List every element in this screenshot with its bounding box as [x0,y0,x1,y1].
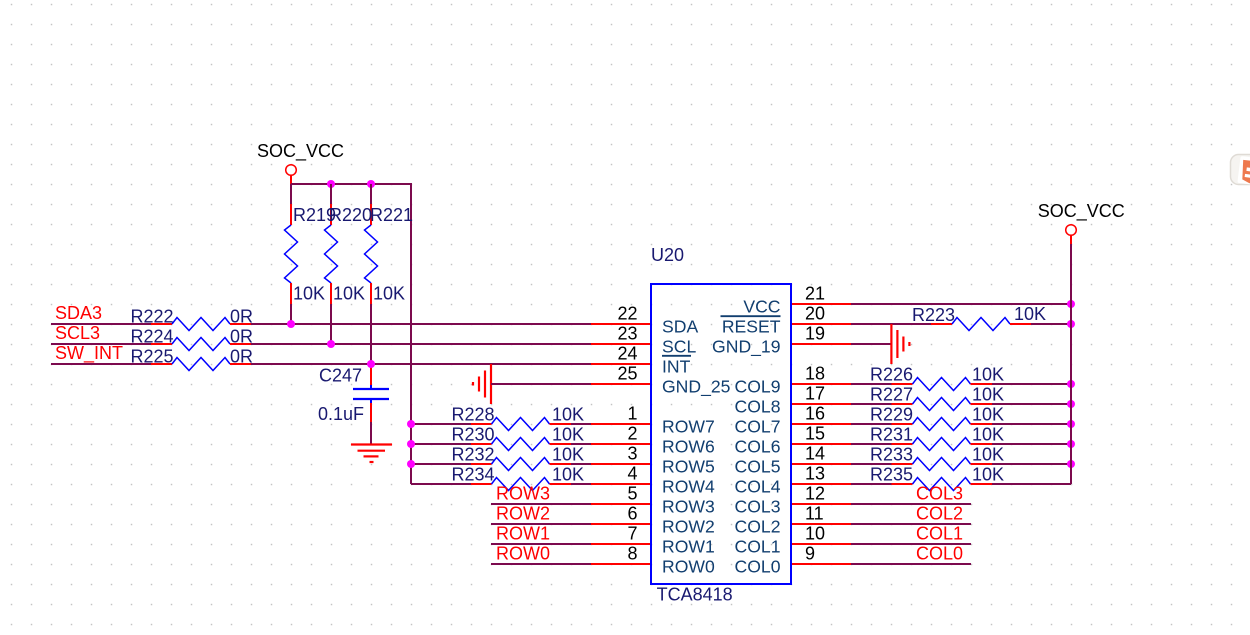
wire top rail [291,183,411,185]
value 10K of R228 [552,405,584,425]
pin number 22 [617,304,637,324]
svg-text:C247: C247 [319,366,362,386]
resistor R232 10K [471,458,571,471]
value 0R of R224 [230,327,253,347]
pin stub right y564 [791,563,851,565]
pin stub right y324 [791,323,851,325]
pin name ROW4 [662,476,715,496]
svg-text:R220: R220 [329,205,372,225]
svg-text:0.1uF: 0.1uF [318,404,364,424]
resistor R223 10K [931,318,1031,331]
svg-text:RESET: RESET [722,316,781,336]
svg-text:COL1: COL1 [916,523,963,543]
pin stub right y384 [791,383,851,385]
wire R234 to chip [571,483,591,485]
pin stub right y344 [791,343,851,345]
svg-text:10K: 10K [293,283,325,303]
pin name INT [662,356,691,376]
net label ROW1 [496,523,550,543]
value 0R of R222 [230,307,253,327]
pin stub right y404 [791,403,851,405]
pin stub left y564 [591,563,651,565]
svg-text:R222: R222 [131,307,174,327]
svg-text:ROW2: ROW2 [496,503,550,523]
pin number 4 [627,464,637,484]
pin number 9 [805,544,815,564]
svg-text:5: 5 [627,484,637,504]
net label ROW3 [496,483,550,503]
svg-text:12: 12 [805,484,825,504]
net label SDA3 [55,303,102,323]
svg-text:COL0: COL0 [735,556,781,576]
svg-text:14: 14 [805,444,825,464]
wire R235 to rail [992,483,1071,485]
junction rail y384 [1067,380,1075,388]
overline RESET [721,315,781,317]
wire pin to R229 [851,423,892,425]
svg-text:ROW3: ROW3 [662,496,715,516]
wire R227 to rail [992,403,1071,405]
junction SCL3 pullup [327,340,335,348]
ground on pin 19 [891,324,909,364]
svg-text:R223: R223 [912,305,955,325]
svg-text:R234: R234 [452,465,495,485]
label R219 [293,205,336,225]
pin number 23 [617,324,637,344]
pin stub right y524 [791,523,851,525]
junction rail row6 [407,440,415,448]
pin stub left y344 [591,343,651,345]
junction rail pin20 [1067,320,1075,328]
svg-text:COL3: COL3 [735,496,781,516]
wire COL0 [851,563,971,565]
svg-text:10K: 10K [1014,304,1046,324]
wire pin to R231 [851,443,892,445]
pin name SDA [662,316,698,336]
wire VCC rail vertical [1070,244,1072,484]
svg-text:SOC_VCC: SOC_VCC [257,141,344,162]
junction rail row7 [407,420,415,428]
label R222 [131,307,174,327]
svg-text:TCA8418: TCA8418 [657,585,733,605]
pin stub right y464 [791,463,851,465]
wire pin to R226 [851,383,892,385]
value 10K of R235 [972,465,1004,485]
svg-text:4: 4 [627,464,637,484]
svg-text:GND_25: GND_25 [662,376,731,397]
resistor R219 10K vertical [285,184,298,324]
pin name RESET [722,316,781,336]
resistor R220 10K vertical [325,184,338,344]
svg-text:COL7: COL7 [735,416,781,436]
label R232 [452,445,495,465]
pin stub right y444 [791,443,851,445]
pin name ROW3 [662,496,715,516]
svg-text:ROW7: ROW7 [662,416,715,436]
junction rail pin21 [1067,300,1075,308]
svg-text:COL2: COL2 [916,503,963,523]
junction rail y424 [1067,420,1075,428]
wire COL3 [851,503,971,505]
svg-text:13: 13 [805,464,825,484]
wire COL2 [851,523,971,525]
wire vertical right of R221 [410,183,412,484]
browser overlay button [1231,155,1250,186]
pin stub right y304 [791,303,851,305]
resistor R234 10K [471,478,571,491]
svg-text:R231: R231 [870,425,913,445]
value 0.1uF [318,404,364,424]
label R224 [131,327,174,347]
ground below C247 [351,445,392,463]
pin number 20 [805,304,825,324]
svg-text:20: 20 [805,304,825,324]
svg-text:COL3: COL3 [916,483,963,503]
pin stub right y504 [791,503,851,505]
svg-text:10K: 10K [972,405,1004,425]
resistor R233 10K [892,458,993,471]
wire rail to R234 [411,483,471,485]
capacitor C247 0.1uF [353,364,389,422]
svg-text:10K: 10K [552,465,584,485]
pin number 7 [627,524,637,544]
junction SW_INT pullup [367,360,375,368]
wire SCL3 left segment [51,343,151,345]
pin stub right y484 [791,483,851,485]
pin name COL4 [735,476,781,496]
svg-text:2: 2 [627,424,637,444]
svg-text:10K: 10K [972,465,1004,485]
svg-text:10K: 10K [373,283,405,303]
value 0R of R225 [230,347,253,367]
svg-text:ROW0: ROW0 [496,543,550,563]
pin number 8 [627,544,637,564]
pin name GND_19 [712,336,780,357]
pin number 18 [805,364,825,384]
value 10K of R231 [972,425,1004,445]
svg-text:3: 3 [627,444,637,464]
wire C247 to ground [370,422,372,444]
label R231 [870,425,913,445]
pin stub right y424 [791,423,851,425]
pin name ROW0 [662,556,715,576]
pin name COL1 [735,536,781,556]
pin number 14 [805,444,825,464]
svg-text:8: 8 [627,544,637,564]
wire ROW2 [491,523,591,525]
svg-text:ROW1: ROW1 [662,536,715,556]
svg-text:18: 18 [805,364,825,384]
svg-text:COL6: COL6 [735,436,781,456]
wire ROW3 [491,503,591,505]
svg-text:COL2: COL2 [735,516,781,536]
label R223 [912,305,955,325]
wire SDA3 left segment [51,323,151,325]
junction on top rail at R220 [327,180,335,188]
svg-text:10K: 10K [552,445,584,465]
svg-text:SCL: SCL [662,336,696,356]
resistor R225 0R [151,358,251,371]
svg-text:0R: 0R [230,307,253,327]
svg-text:R230: R230 [452,425,495,445]
label R234 [452,465,495,485]
svg-text:10: 10 [805,524,825,544]
pin name COL2 [735,516,781,536]
svg-text:R229: R229 [870,405,913,425]
value 10K of R221 [373,283,405,303]
svg-text:10K: 10K [552,405,584,425]
pin name COL3 [735,496,781,516]
net label ROW2 [496,503,550,523]
svg-text:R232: R232 [452,445,495,465]
pin name COL9 [735,376,781,396]
wire rail to R230 [411,443,471,445]
pin name COL5 [735,456,781,476]
net label COL1 [916,523,963,543]
junction rail y444 [1067,440,1075,448]
wire ROW0 [491,563,591,565]
svg-text:R221: R221 [370,205,413,225]
net label ROW0 [496,543,550,563]
pin name COL6 [735,436,781,456]
wire SW_INT left segment [51,363,151,365]
svg-text:10K: 10K [972,425,1004,445]
label R229 [870,405,913,425]
svg-text:COL5: COL5 [735,456,781,476]
junction rail y404 [1067,400,1075,408]
wire SW_INT to chip [251,363,591,365]
svg-text:ROW5: ROW5 [662,456,715,476]
net label SW_INT [55,343,123,364]
pin name COL7 [735,416,781,436]
value 10K of R230 [552,425,584,445]
wire SDA3 to chip [251,323,591,325]
resistor R229 10K [892,418,993,431]
svg-text:22: 22 [617,304,637,324]
svg-text:COL1: COL1 [735,536,781,556]
label R220 [329,205,372,225]
pin number 17 [805,384,825,404]
svg-text:21: 21 [805,284,825,304]
ground on INT pin 25 [473,364,491,404]
svg-text:16: 16 [805,404,825,424]
pin number 5 [627,484,637,504]
resistor R235 10K [892,478,993,491]
net label SCL3 [55,323,100,343]
value 10K of R234 [552,465,584,485]
svg-text:23: 23 [617,324,637,344]
value 10K of R229 [972,405,1004,425]
svg-text:7: 7 [627,524,637,544]
svg-text:COL8: COL8 [735,396,781,416]
pin number 11 [805,504,824,524]
value 10K of R233 [972,445,1004,465]
svg-text:ROW2: ROW2 [662,516,715,536]
pin name GND_25 [662,376,731,397]
junction on top rail at R221 [367,180,375,188]
pin name ROW7 [662,416,715,436]
value 10K of R220 [333,283,365,303]
svg-text:ROW6: ROW6 [662,436,715,456]
label R228 [452,405,495,425]
label R227 [870,385,913,405]
resistor R228 10K [471,418,571,431]
pin number 19 [805,324,825,344]
svg-text:R235: R235 [870,465,913,485]
svg-text:SDA3: SDA3 [55,303,102,323]
value 10K of R232 [552,445,584,465]
net label COL0 [916,543,963,563]
value 10K of R227 [972,385,1004,405]
resistor R230 10K [471,438,571,451]
pin stub left y544 [591,543,651,545]
svg-text:24: 24 [617,344,637,364]
wire R228 to chip [571,423,591,425]
svg-text:0R: 0R [230,327,253,347]
overline INT [662,355,691,357]
pin stub left y444 [591,443,651,445]
pin stub left y364 [591,363,651,365]
wire R231 to rail [992,443,1071,445]
wire R233 to rail [992,463,1071,465]
resistor R231 10K [892,438,993,451]
label R221 [370,205,413,225]
svg-text:SDA: SDA [662,316,698,336]
svg-text:1: 1 [627,404,637,424]
op-amp U20 TCA8418 body [651,284,791,584]
pin stub left y504 [591,503,651,505]
resistor R226 10K [892,378,993,391]
label R233 [870,445,913,465]
net label COL2 [916,503,963,523]
svg-text:R233: R233 [870,445,913,465]
svg-text:GND_19: GND_19 [712,336,780,357]
pin number 1 [627,404,637,424]
pin number 10 [805,524,825,544]
pin number 15 [805,424,825,444]
wire SCL3 to chip [251,343,591,345]
wire pin to R233 [851,463,892,465]
pin number 21 [805,284,825,304]
pin number 3 [627,444,637,464]
resistor R227 10K [892,398,993,411]
svg-text:10K: 10K [972,445,1004,465]
pin name VCC [743,296,780,316]
wire rail to R232 [411,463,471,465]
net label COL3 [916,483,963,503]
svg-text:SCL3: SCL3 [55,323,100,343]
svg-text:R226: R226 [870,365,913,385]
pin stub left y424 [591,423,651,425]
pin number 16 [805,404,825,424]
wire R223 to rail [1031,323,1071,325]
svg-text:SOC_VCC: SOC_VCC [1038,201,1125,222]
resistor R222 0R [151,318,251,331]
svg-text:25: 25 [617,364,637,384]
wire GND pin19 [851,343,891,345]
pin name COL8 [735,396,781,416]
wire rail to R228 [411,423,471,425]
pin stub left y484 [591,483,651,485]
svg-text:10K: 10K [333,283,365,303]
pin stub left y384 [591,383,651,385]
value 10K of R219 [293,283,325,303]
junction rail y464 [1067,460,1075,468]
svg-text:R227: R227 [870,385,913,405]
svg-text:COL9: COL9 [735,376,781,396]
pin number 2 [627,424,637,444]
wire pin to R227 [851,403,892,405]
wire ROW1 [491,543,591,545]
svg-text:ROW1: ROW1 [496,523,550,543]
pin name COL0 [735,556,781,576]
svg-text:10K: 10K [972,385,1004,405]
svg-text:10K: 10K [972,365,1004,385]
pin stub left y464 [591,463,651,465]
pin stub left y324 [591,323,651,325]
svg-text:6: 6 [627,504,637,524]
part number TCA8418 [657,585,733,605]
svg-text:VCC: VCC [743,296,780,316]
value 10K of R226 [972,365,1004,385]
pin stub left y524 [591,523,651,525]
junction SDA3 pullup [287,320,295,328]
svg-text:R228: R228 [452,405,495,425]
pin number 13 [805,464,825,484]
junction rail row5 [407,460,415,468]
svg-text:INT: INT [662,356,691,376]
resistor R221 10K vertical [365,184,378,364]
pin name ROW6 [662,436,715,456]
svg-text:COL4: COL4 [735,476,781,496]
value 10K of R223 [1014,304,1046,324]
wire INT pin 25 [491,383,591,385]
power port SOC_VCC left [257,141,344,184]
svg-text:19: 19 [805,324,825,344]
svg-text:R225: R225 [131,347,174,367]
wire RESET pin20 segment [851,323,931,325]
power port SOC_VCC right [1038,201,1125,244]
wire R226 to rail [992,383,1071,385]
wire R229 to rail [992,423,1071,425]
svg-text:17: 17 [805,384,825,404]
label R225 [131,347,174,367]
pin number 12 [805,484,825,504]
svg-text:R224: R224 [131,327,174,347]
pin number 25 [617,364,637,384]
pin number 24 [617,344,637,364]
pin number 6 [627,504,637,524]
wire R232 to chip [571,463,591,465]
svg-text:ROW4: ROW4 [662,476,715,496]
label R230 [452,425,495,445]
svg-text:10K: 10K [552,425,584,445]
pin stub right y544 [791,543,851,545]
resistor R224 0R [151,338,251,351]
label C247 [319,366,362,386]
label R235 [870,465,913,485]
svg-text:0R: 0R [230,347,253,367]
svg-text:U20: U20 [651,245,684,265]
wire VCC pin21 to rail [851,303,1071,305]
pin name ROW1 [662,536,715,556]
designator U20 [651,245,684,265]
svg-text:11: 11 [805,504,824,524]
wire R230 to chip [571,443,591,445]
label R226 [870,365,913,385]
svg-text:15: 15 [805,424,825,444]
wire COL1 [851,543,971,545]
